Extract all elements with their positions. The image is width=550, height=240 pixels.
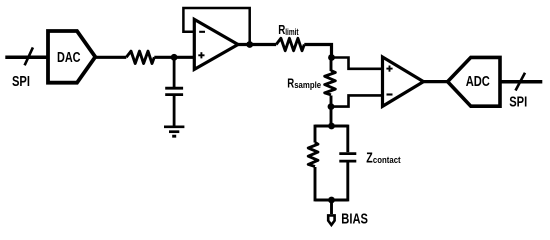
feedback wire U2 output to inverting input <box>183 8 249 45</box>
wire U3 output to ADC <box>424 80 448 83</box>
svg-text:ADC: ADC <box>466 72 490 89</box>
wire Zcontact right rail upper <box>346 125 349 153</box>
op-amp U2 plus sign <box>198 52 204 58</box>
svg-text:BIAS: BIAS <box>341 210 368 227</box>
op-amp U3 plus sign <box>386 66 392 72</box>
wire SPI input to DAC <box>5 56 48 60</box>
wire Zcontact right rail lower <box>346 163 349 202</box>
wire Rlimit to node B <box>304 45 331 58</box>
resistor Rlimit <box>276 38 304 50</box>
wire node B to Rsample <box>330 58 333 72</box>
ground <box>164 127 184 136</box>
wire R1 to op-amp U2 + input <box>154 56 194 59</box>
port BIAS <box>328 215 334 225</box>
resistor (Zcontact R branch) <box>308 142 318 166</box>
resistor Rsample <box>325 71 336 95</box>
svg-text:Z: Z <box>366 150 373 166</box>
op-amp U3 <box>383 57 424 106</box>
bus slash on SPI input <box>25 47 33 65</box>
op-amp U2 <box>194 19 238 69</box>
resistor R1 (series) <box>126 51 154 63</box>
DAC U1 <box>48 31 95 83</box>
bus slash on SPI output <box>516 73 526 91</box>
node C junction (Rsample bottom) <box>328 103 335 110</box>
node E junction (Zcontact bottom) <box>328 197 335 204</box>
svg-text:DAC: DAC <box>57 50 81 66</box>
capacitor C1 <box>165 88 183 127</box>
wire DAC to R1 <box>95 56 126 59</box>
wire ADC to SPI output <box>500 80 542 84</box>
op-amp U3 minus sign <box>387 93 393 95</box>
wire Zcontact left rail upper <box>314 125 317 143</box>
wire Zcontact top rail <box>315 125 348 128</box>
svg-text:sample: sample <box>294 79 321 90</box>
svg-text:contact: contact <box>373 154 401 165</box>
node A junction <box>171 54 178 61</box>
svg-text:SPI: SPI <box>509 93 527 110</box>
svg-text:SPI: SPI <box>12 73 30 90</box>
capacitor (Zcontact C branch) <box>339 154 356 162</box>
wire node A to capacitor C1 <box>173 57 176 87</box>
op-amp U2 minus sign <box>199 31 205 33</box>
wire node C to node D <box>330 107 333 126</box>
node B junction (Rsample top) <box>328 54 335 61</box>
ADC U4 <box>448 57 500 106</box>
label Zcontact <box>366 150 400 166</box>
node D junction (Zcontact top) <box>328 123 335 130</box>
wire node C to op-amp U3 - input <box>331 95 383 106</box>
node U2 output junction <box>246 41 253 48</box>
wire Zcontact left rail lower <box>314 167 317 201</box>
label Rsample <box>287 77 321 91</box>
svg-text:limit: limit <box>285 27 299 37</box>
wire Rsample to node C <box>330 96 333 107</box>
wire node B to op-amp U3 + input <box>332 58 383 69</box>
label Rlimit <box>278 23 299 38</box>
wire Zcontact bottom rail <box>315 199 348 202</box>
wire U2 output <box>238 43 276 46</box>
wire node E to BIAS port <box>330 200 333 214</box>
